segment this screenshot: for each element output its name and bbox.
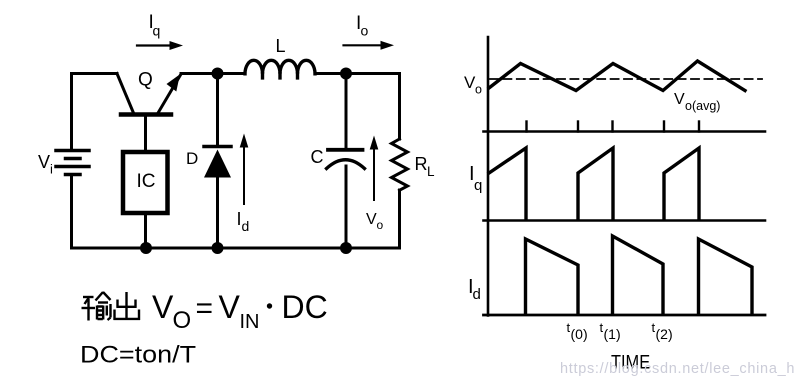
wire: diode branch upper	[216, 74, 219, 146]
rail junction dot 3	[340, 242, 352, 254]
svg-text:C: C	[311, 147, 324, 167]
svg-text:V: V	[674, 91, 685, 108]
svg-text:O: O	[173, 307, 192, 334]
svg-text:q: q	[153, 23, 161, 39]
rail junction dot 2	[212, 242, 224, 254]
label TIME	[611, 351, 650, 373]
resistor RL	[392, 139, 408, 190]
wire: capacitor branch upper	[345, 74, 348, 149]
svg-text:o(avg): o(avg)	[685, 99, 720, 113]
waveform Vo plot bottom axis	[484, 130, 766, 133]
watermark	[560, 361, 795, 377]
label Vo (plot)	[464, 73, 482, 97]
arrow Iq	[137, 44, 172, 46]
inductor L	[245, 60, 315, 74]
tick 2	[577, 122, 579, 132]
svg-text:V: V	[219, 289, 241, 325]
label t(2)	[652, 320, 673, 342]
svg-text:o: o	[361, 23, 369, 39]
svg-text:L: L	[276, 36, 286, 56]
tick 3	[611, 122, 613, 132]
Vo average dashed line	[490, 78, 762, 80]
diode D triangle	[204, 150, 231, 178]
arrow Io	[344, 44, 383, 46]
tick 4	[663, 122, 665, 132]
Id pulse 3	[699, 239, 753, 314]
arrow Id	[243, 146, 245, 204]
svg-text:(0): (0)	[571, 326, 588, 342]
wire: transistor to node A	[181, 72, 244, 75]
label Io	[356, 13, 369, 39]
label IC	[137, 171, 156, 192]
svg-text:(2): (2)	[656, 326, 673, 342]
label D	[186, 149, 198, 168]
svg-text:D: D	[186, 149, 198, 168]
transistor Q emitter diagonal	[158, 74, 181, 113]
formula line 1: hanzi 输 (hand drawn strokes)	[82, 292, 111, 321]
wire: diode branch lower	[216, 176, 219, 248]
label L	[276, 36, 286, 56]
Iq pulse 1	[489, 148, 526, 219]
Id pulse 1	[526, 239, 579, 314]
label Id (plot)	[468, 276, 481, 303]
formula line 2: DC=ton/T	[80, 342, 196, 369]
tick 5	[698, 122, 700, 132]
svg-text:d: d	[242, 218, 250, 234]
svg-text:=: =	[196, 292, 214, 325]
rail junction dot 1	[140, 242, 152, 254]
wire: IC bottom lead	[144, 213, 147, 248]
node A junction dot	[212, 68, 224, 80]
transistor Q base bar	[121, 112, 171, 117]
Vo ripple waveform	[489, 61, 745, 91]
wire: resistor bottom	[398, 190, 401, 248]
svg-text:d: d	[473, 286, 481, 303]
svg-text:https://blog.csdn.net/lee_chin: https://blog.csdn.net/lee_china_h	[560, 361, 795, 377]
Iq pulse 3	[664, 148, 699, 219]
label Vo(avg)	[674, 91, 720, 113]
label Iq	[149, 12, 161, 39]
Iq pulse 2	[578, 148, 613, 219]
svg-text:q: q	[474, 177, 482, 194]
wire: inductor to node B and right corner down	[316, 74, 400, 140]
svg-text:V: V	[38, 152, 50, 172]
IC block U1	[123, 152, 168, 213]
ground rail wire	[72, 247, 400, 250]
svg-text:(1): (1)	[604, 326, 621, 342]
svg-text:o: o	[475, 83, 482, 97]
svg-text:R: R	[415, 154, 428, 174]
svg-text:V: V	[366, 211, 377, 228]
label Vi	[38, 152, 53, 177]
wire: capacitor branch lower	[345, 166, 348, 248]
transistor Q collector lead (left diagonal)	[117, 74, 134, 114]
svg-text:o: o	[377, 218, 384, 232]
label Iq (plot)	[469, 163, 482, 194]
node B junction dot	[340, 68, 352, 80]
waveform y-axis	[487, 37, 490, 316]
diode D cathode bar	[204, 145, 231, 149]
svg-text:V: V	[152, 289, 174, 325]
svg-text:IC: IC	[137, 171, 156, 192]
battery Vi	[56, 151, 89, 175]
Id pulse 2	[613, 236, 664, 314]
arrow Vo	[373, 149, 375, 200]
formula line 1: multiplication dot	[267, 303, 272, 308]
formula line 1: V O = V IN . DC	[152, 289, 328, 334]
waveform Iq plot bottom axis	[484, 219, 766, 222]
formula line 1: hanzi 出 (hand drawn strokes)	[114, 292, 141, 320]
transistor Q emitter arrowhead	[167, 74, 181, 91]
label C	[311, 147, 324, 167]
label Vo	[366, 211, 384, 232]
capacitor C top plate	[328, 148, 363, 152]
wire: battery bottom to ground rail	[70, 176, 73, 248]
transistor base lead down to IC	[144, 115, 147, 152]
capacitor C curved plate	[327, 160, 365, 169]
svg-text:i: i	[50, 162, 53, 177]
svg-text:L: L	[427, 164, 435, 179]
label RL	[415, 154, 436, 179]
label Id	[237, 209, 250, 234]
wire: battery top up to top rail toward transistor	[72, 74, 118, 150]
svg-text:DC=ton/T: DC=ton/T	[80, 342, 196, 369]
svg-text:DC: DC	[282, 289, 328, 325]
svg-text:Q: Q	[138, 70, 153, 91]
label t(1)	[600, 320, 621, 342]
label Q	[138, 70, 153, 91]
waveform Id plot bottom axis	[484, 314, 766, 317]
svg-text:IN: IN	[240, 311, 260, 333]
label t(0)	[567, 320, 588, 342]
tick 1	[525, 122, 527, 132]
